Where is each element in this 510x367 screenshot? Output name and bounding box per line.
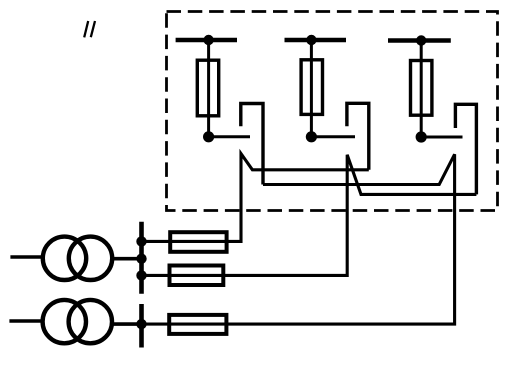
- transformer T2 primary winding: [43, 300, 86, 343]
- fuse F4 body: [170, 232, 226, 252]
- busbar section L3 (top bar, branch 3): [388, 38, 451, 43]
- node: fuse-switch junction branch 3: [416, 131, 427, 142]
- wire: fuse F6 circuit to disconnector Q1: [142, 154, 455, 324]
- label II (section numeral): [84, 21, 95, 37]
- node: busbar to fuse F4: [136, 236, 146, 246]
- fuse F6 body: [169, 315, 226, 334]
- node: fuse-switch junction branch 2: [306, 131, 317, 142]
- disconnector Q2 fixed contact hook: [347, 103, 369, 170]
- wire: branch 3 stem through fuse: [420, 41, 423, 138]
- wire: T1 left lead: [10, 255, 43, 259]
- transformer T1 secondary winding: [69, 237, 112, 280]
- enclosure (dashed cubicle outline): [167, 12, 498, 211]
- wire: T2 left lead: [9, 319, 43, 323]
- wire: branch 1 stem through fuse: [207, 40, 210, 137]
- fuse F3 body: [411, 61, 432, 116]
- transformer T2 secondary winding: [69, 300, 112, 343]
- disconnector Q3 fixed contact hook: [455, 104, 476, 194]
- disconnector Q2 blade (open): [311, 135, 355, 138]
- wire: fuse F4 circuit to disconnector Q2: [142, 154, 369, 242]
- fuse F5 body: [170, 266, 224, 286]
- transformer T1 primary winding: [43, 237, 86, 280]
- wire: T1 lead to busbar: [112, 257, 142, 261]
- node: busbar T1 junction: [136, 254, 146, 264]
- disconnector Q1 blade (open): [209, 135, 250, 138]
- node: bar-fuse junction branch 1: [203, 35, 213, 45]
- fuse F2 body: [301, 60, 322, 115]
- wire: branch 2 stem through fuse: [310, 40, 313, 137]
- node: fuse-switch junction branch 1: [203, 131, 214, 142]
- fuse F1 body: [197, 60, 218, 116]
- node: busbar to fuse F5: [136, 270, 146, 280]
- busbar section L2 (top bar, branch 2): [285, 38, 347, 43]
- node: bar-fuse junction branch 2: [306, 35, 316, 45]
- disconnector Q3 blade (open): [421, 136, 462, 139]
- node: busbar T2 to fuse F6: [136, 319, 146, 329]
- busbar section (lower left, lower): [139, 304, 144, 348]
- busbar section L1 (top bar, branch 1): [176, 38, 237, 43]
- node: bar-fuse junction branch 3: [416, 35, 426, 45]
- disconnector Q1 fixed contact hook: [241, 104, 263, 185]
- busbar section (lower left, upper): [139, 222, 144, 294]
- wire: T2 lead to busbar: [111, 322, 141, 326]
- wire: fuse F5 circuit to disconnector Q3: [142, 155, 477, 276]
